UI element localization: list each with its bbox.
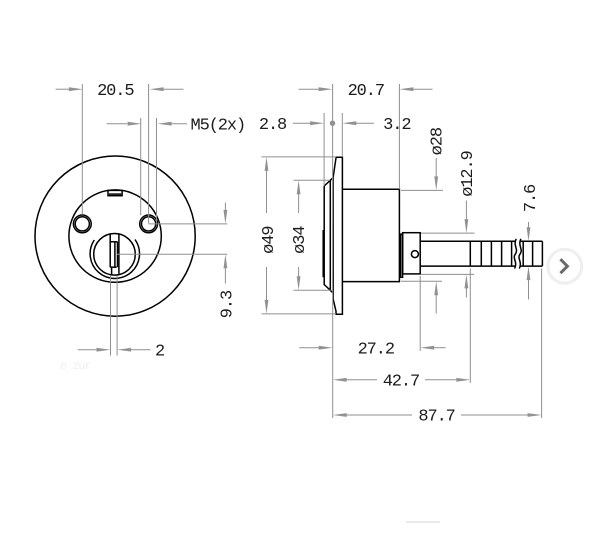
block hole xyxy=(411,251,418,258)
dimension 9.3 xyxy=(117,203,237,319)
flange plug bar xyxy=(322,230,324,277)
faint dash xyxy=(406,521,440,523)
top notch rectangle xyxy=(108,190,122,195)
svg-text:e zur: e zur xyxy=(60,359,91,373)
svg-text:42.7: 42.7 xyxy=(383,372,419,391)
svg-text:7.6: 7.6 xyxy=(522,184,541,212)
svg-text:M5(2x): M5(2x) xyxy=(191,116,246,135)
dimension 3.2 xyxy=(342,113,410,157)
flange back plate xyxy=(333,157,342,314)
dimension 2.8 xyxy=(259,113,324,186)
inner rosette circle xyxy=(69,190,161,282)
dimension 87.7 xyxy=(333,269,542,427)
shaft xyxy=(420,241,542,266)
watermark xyxy=(60,359,91,373)
dimension D34 xyxy=(291,180,331,290)
dimension D12.9 xyxy=(421,150,478,297)
break squiggles xyxy=(514,239,521,269)
plug circle xyxy=(94,234,136,276)
svg-text:3.2: 3.2 xyxy=(383,116,410,135)
screw hole left xyxy=(73,215,91,233)
svg-text:9.3: 9.3 xyxy=(218,290,237,318)
keyway slot xyxy=(110,234,119,275)
svg-text:2: 2 xyxy=(155,342,164,361)
dimension 2 xyxy=(78,276,164,362)
dimension 20.5 xyxy=(56,82,184,224)
dimension 27.2 xyxy=(299,276,445,418)
screw hole right xyxy=(140,215,158,233)
dimension 7.6 xyxy=(522,184,541,300)
cylinder body xyxy=(342,189,399,281)
svg-text:2.8: 2.8 xyxy=(259,116,287,135)
svg-text:27.2: 27.2 xyxy=(358,340,394,359)
outer rosette circle xyxy=(35,156,195,316)
flange front disc xyxy=(324,178,333,293)
dimension 20.7 xyxy=(299,82,433,291)
svg-text:ø49: ø49 xyxy=(260,226,279,254)
dimension 42.7 xyxy=(333,269,471,392)
cam block xyxy=(403,233,421,274)
svg-text:ø12.9: ø12.9 xyxy=(459,150,478,196)
carousel next button xyxy=(548,249,582,283)
svg-text:20.7: 20.7 xyxy=(348,82,384,101)
svg-text:ø34: ø34 xyxy=(291,226,310,254)
thread lines xyxy=(470,241,532,266)
svg-text:87.7: 87.7 xyxy=(418,408,454,427)
tailpiece strip xyxy=(401,234,403,277)
dimension D49 xyxy=(260,157,336,314)
dimension D28 xyxy=(401,127,448,313)
svg-text:ø28: ø28 xyxy=(429,127,448,155)
dimension M5(2x) xyxy=(107,116,245,223)
retaining ring arc xyxy=(90,240,139,279)
dimension dot xyxy=(330,121,335,126)
svg-text:20.5: 20.5 xyxy=(97,82,134,101)
